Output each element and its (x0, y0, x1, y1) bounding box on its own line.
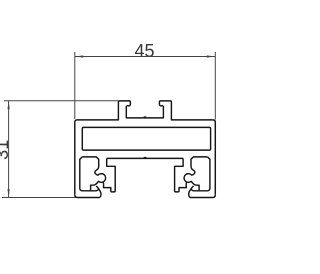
profile bottom-left corner, bottom face, slit left wall and tongue (75, 186, 101, 198)
bottom channel right wall with step, lip tab and undercut (175, 158, 187, 192)
dimension 45 line (75, 56, 215, 58)
inner rectangular hollow (82, 127, 210, 150)
profile top outline: left edge, top face, T-slot with lips, right edge (75, 101, 216, 195)
arrow left of 45 dim (75, 55, 83, 57)
svg-text:45: 45 (134, 41, 154, 61)
center tick on T-slot floor (144, 116, 147, 118)
arrow top of 31 dim (8, 101, 10, 109)
extension line bottom of 31 dim (2, 197, 76, 199)
center tick on channel ceiling (144, 157, 147, 159)
arrow right of 45 dim (207, 55, 215, 57)
right screw cavity with neck into circle (184, 157, 210, 191)
svg-text:31: 31 (0, 140, 12, 160)
profile bottom-right corner, bottom face, slit right wall and tongue (189, 186, 216, 198)
extension line left of 45 dim (74, 52, 76, 119)
extension line right of 45 dim (214, 52, 216, 120)
arrow bottom of 31 dim (8, 189, 10, 197)
extension line top of 31 dim (4, 100, 118, 102)
dimension 31 line (8, 101, 10, 198)
bottom channel ceiling (107, 157, 183, 159)
bottom channel left wall with step, lip tab and undercut (103, 158, 115, 192)
left screw cavity with neck into circle (80, 157, 106, 191)
